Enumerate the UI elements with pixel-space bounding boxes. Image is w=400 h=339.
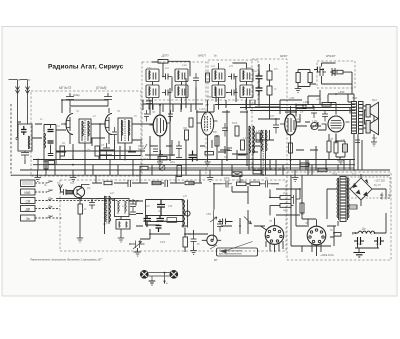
svg-text:6Ц 4П: 6Ц 4П — [374, 184, 381, 187]
note box: повернуто вид — [217, 248, 258, 256]
wire: AF top row — [60, 183, 202, 192]
resistor R15 — [267, 86, 272, 95]
phono jack — [202, 235, 221, 245]
coil L23 with pickup — [183, 200, 190, 228]
output transformer Тр2 — [352, 102, 364, 134]
resistor R33 — [183, 237, 188, 247]
filter choke Др — [358, 231, 375, 233]
band filter cell L8a — [175, 69, 188, 82]
resistor R35 — [152, 181, 161, 184]
detector parts: resistor R14 — [267, 71, 272, 80]
svg-text:Гр1: Гр1 — [372, 98, 377, 102]
resistor R23 screen — [327, 141, 331, 152]
electrolytic C44b — [144, 216, 152, 228]
ground: under V4 — [205, 158, 211, 166]
resistor R9 — [215, 136, 219, 146]
wire: power verticals — [291, 175, 337, 256]
phono input fork — [59, 185, 63, 193]
capacitor C31 — [355, 140, 360, 143]
svg-text:С45: С45 — [168, 205, 173, 208]
bridge rectifier — [350, 178, 372, 200]
wire: detector column — [255, 64, 280, 140]
svg-text:5100: 5100 — [232, 123, 238, 125]
capacitor C18 — [159, 150, 163, 155]
dashed box: power supply section — [287, 172, 391, 260]
svg-text:220к: 220к — [169, 162, 176, 164]
arrow terminal a — [163, 281, 165, 284]
svg-text:Зв: Зв — [26, 217, 30, 221]
resistor R24 — [333, 70, 343, 74]
svg-text:~220в 127в: ~220в 127в — [320, 253, 334, 257]
capacitor C12 — [193, 73, 199, 87]
wire: V5 surroundings — [280, 100, 302, 170]
pointer line from note — [220, 249, 227, 253]
converter cell L10a — [240, 69, 253, 82]
svg-text:ДПП: ДПП — [161, 54, 169, 58]
ground: varcap — [134, 252, 141, 256]
capacitor C17 — [153, 149, 158, 152]
capacitor C47 — [165, 180, 168, 187]
wire: transformer to speakers — [363, 106, 374, 128]
svg-text:Тр2: Тр2 — [352, 96, 357, 100]
converter cell L10b — [240, 85, 253, 98]
capacitor C25 — [256, 84, 263, 96]
dashed box: FM/input unit — [31, 91, 141, 176]
svg-text:6И1П: 6И1П — [198, 54, 206, 58]
resistor R22 cathode — [334, 142, 338, 153]
capacitor C10 mid — [162, 74, 172, 80]
resistor R34 — [104, 181, 112, 184]
loudspeaker Гр1 — [366, 102, 379, 118]
ground: C51 — [190, 251, 197, 255]
resistor R19 — [296, 105, 306, 109]
band switch button П5 — [21, 215, 36, 221]
wire: extra mid horizontals — [100, 150, 318, 155]
dashed box: band filter ДПФ — [142, 62, 206, 100]
power transformer Тр1 — [337, 177, 349, 222]
wire: af risers — [96, 170, 240, 183]
diagonal pointer — [210, 242, 253, 251]
wire: preamp links — [270, 189, 300, 215]
resistor R45 — [280, 204, 291, 208]
svg-text:1,0М: 1,0М — [256, 131, 261, 133]
capacitor C44 — [130, 199, 136, 212]
wire: transistor bias — [56, 199, 114, 239]
resistor R36 — [185, 181, 194, 184]
transistor Q1 П13 — [72, 185, 90, 200]
dial lamp Л9 — [170, 270, 178, 278]
band filter cell L8b — [175, 85, 188, 98]
resistor R2 — [95, 146, 100, 156]
resistor R50 — [334, 233, 341, 237]
svg-text:207: 207 — [145, 206, 151, 208]
resistor R30 — [66, 191, 73, 194]
svg-text:Гр2: Гр2 — [372, 136, 377, 140]
capacitor C21 — [176, 141, 182, 155]
resistor R21 — [322, 103, 331, 107]
wire: top box2 pins — [219, 63, 251, 110]
arrow to socket — [244, 217, 252, 225]
svg-text:1,0М: 1,0М — [312, 121, 317, 123]
vertical resistor R13 — [177, 166, 182, 177]
capacitor C51 — [191, 234, 197, 247]
wire: filter caps to ground — [355, 245, 379, 252]
svg-text:6Х2П: 6Х2П — [295, 119, 301, 121]
svg-text:+10в: +10в — [303, 100, 310, 104]
tube V5 6Х2П detector — [280, 106, 300, 160]
wire: risers mid — [150, 78, 247, 165]
page sheet — [2, 27, 397, 297]
resistor R1 — [60, 146, 65, 156]
IF transformer box L21 — [115, 199, 130, 217]
wire: screen — [328, 134, 330, 160]
IF transformer box L22 — [116, 220, 130, 230]
wire: tone row — [214, 184, 279, 210]
capacitor C40 — [60, 189, 63, 192]
svg-text:15н5: 15н5 — [143, 159, 149, 161]
svg-text:Переключатель диапазонов. Вклю: Переключатель диапазонов. Включена 1 про… — [30, 257, 103, 261]
resistor on bus R61 — [300, 163, 309, 166]
converter cell L9a — [212, 69, 225, 82]
svg-text:205: 205 — [157, 211, 163, 213]
band switch button П1 — [21, 180, 36, 187]
band switch button П4 — [21, 206, 36, 212]
band filter cell L7a — [146, 69, 159, 82]
trimmer C19 — [159, 165, 165, 171]
ground: bus left 2 — [70, 170, 77, 182]
svg-text:206: 206 — [145, 221, 151, 223]
wire: bus 5 partial — [148, 167, 354, 169]
electrolytic C32 — [343, 144, 348, 152]
electrolytic C61 — [374, 237, 384, 245]
capacitor C11 mid — [162, 90, 172, 96]
svg-text:210: 210 — [282, 193, 288, 195]
crossed pickup box on bus — [232, 172, 242, 177]
svg-text:ДВ: ДВ — [25, 207, 31, 211]
svg-text:+250: +250 — [338, 90, 345, 94]
svg-text:УКВ: УКВ — [24, 191, 31, 195]
band switch button П2 — [21, 189, 36, 195]
wire: mains — [346, 174, 386, 206]
trimmer pot R20 — [311, 122, 318, 129]
IF transformer L5 L6 — [118, 118, 132, 143]
capacitor C14b mid — [228, 90, 238, 96]
wire: bottom AF — [150, 228, 208, 253]
svg-text:П13: П13 — [70, 183, 75, 185]
ground: R25 — [295, 89, 302, 93]
wire: power section links — [291, 175, 338, 246]
resistor R6 — [206, 73, 210, 82]
svg-text:+250: +250 — [289, 98, 295, 100]
dashed box: detector section — [252, 59, 287, 169]
capacitor C34 — [330, 68, 338, 76]
tube V6 6П14П output — [322, 103, 350, 144]
capacitor C22 — [227, 148, 232, 151]
antenna W2 — [20, 80, 30, 125]
svg-text:СВ: СВ — [26, 199, 31, 203]
mains plug — [380, 193, 390, 200]
electrolytic C44a — [157, 200, 165, 216]
capacitor C57 — [217, 219, 223, 232]
input coil L2 — [44, 125, 56, 165]
wire: V5 to V6 — [296, 114, 326, 130]
resistor R16 — [256, 133, 260, 142]
resistor R7 — [189, 118, 193, 127]
svg-text:С5н15: С5н15 — [133, 252, 140, 254]
resistor R63 — [205, 152, 214, 155]
resistor R44 — [280, 196, 291, 200]
converter cell L9b — [212, 85, 225, 98]
capacitor C1 — [21, 151, 29, 160]
tiny value labels — [17, 65, 385, 254]
wire: V6 plate to transformer — [328, 94, 354, 170]
wire: AF link row — [95, 199, 188, 239]
wire: top box1 pins — [149, 60, 196, 110]
wire: V6 cathode — [336, 134, 345, 161]
trimmer C9 — [138, 141, 147, 155]
rectifier tube socket V8 — [307, 219, 326, 253]
wire: main bus 1 — [33, 159, 355, 161]
capacitor C3 grid — [66, 93, 74, 107]
electrolytic C60 — [354, 237, 364, 245]
capacitor C16 — [168, 110, 173, 122]
electrolytic C44c — [157, 216, 165, 222]
svg-text:Др: Др — [361, 227, 366, 231]
wire: input top links — [17, 106, 153, 152]
resistor R3 — [44, 161, 48, 169]
resistor R27 under V5 — [289, 143, 293, 153]
wire: right feed risers — [306, 90, 362, 170]
svg-text:0,5М: 0,5М — [206, 214, 211, 216]
tube V2 (УКВ heptode) — [100, 108, 112, 144]
dashed box: converter filters — [208, 60, 258, 100]
capacitor C23 dark — [189, 151, 197, 162]
tone box parts: capacitor C33 — [318, 68, 326, 76]
svg-text:6К3П: 6К3П — [280, 54, 288, 58]
tone row resistor R41 — [250, 182, 260, 186]
capacitor C58 — [291, 195, 300, 205]
wire: under V3 — [145, 140, 175, 156]
ground: V6 cathode — [337, 160, 344, 164]
svg-text:1000: 1000 — [224, 178, 230, 180]
detector mesh wires — [146, 200, 184, 228]
resistor R51 power — [300, 203, 304, 213]
svg-text:6П14П: 6П14П — [326, 54, 336, 58]
capacitor C6 — [104, 93, 112, 107]
resistor R25 — [296, 73, 300, 83]
dashed leaders from switch — [35, 183, 140, 218]
svg-text:15н5: 15н5 — [160, 242, 166, 244]
capacitor C7 — [103, 143, 110, 157]
wire: agc row — [196, 100, 255, 112]
tone row capacitor C56 — [262, 181, 271, 188]
tone row capacitor C55 — [222, 181, 232, 188]
wire: lamps — [148, 273, 170, 284]
dashed box: AF amplifier section — [60, 180, 286, 251]
electrolytic C44d — [156, 226, 162, 233]
wire: v risers left — [46, 100, 125, 170]
wire: main bus 4 — [11, 174, 390, 176]
capacitor C8 — [112, 127, 117, 141]
wire: varcap — [129, 239, 150, 252]
IF transformer L11 (between V4 and V5) — [261, 130, 267, 175]
wire: choke — [352, 213, 386, 233]
switch contact arrows — [47, 181, 52, 218]
ground: under V3 — [157, 158, 163, 166]
svg-text:СЗ0: СЗ0 — [207, 97, 212, 99]
wire: left section extra links — [25, 124, 145, 170]
resistor R12 — [158, 157, 167, 160]
wire: R25 R26 net — [298, 70, 316, 89]
resistor R18 (+108 feed) — [303, 105, 313, 109]
ground: bus left 1 — [35, 170, 42, 182]
label box ЦЗ — [167, 218, 177, 223]
ferrite antenna L1 — [16, 124, 32, 151]
band switch button П3 — [21, 198, 36, 204]
capacitor C28 — [311, 106, 317, 118]
svg-text:МГ 6х73: МГ 6х73 — [59, 86, 71, 90]
resistor R10 — [235, 126, 239, 136]
wire: tone box link — [322, 63, 353, 94]
wire: mid column risers — [143, 81, 246, 112]
volume pot R42 — [210, 210, 217, 240]
IF transformer L3 L4 — [79, 119, 91, 143]
resistor on bus R60 — [253, 171, 262, 174]
svg-text:АПЧ: АПЧ — [162, 220, 168, 223]
dashed box: tone network — [317, 61, 355, 88]
dashed extender x206 — [205, 100, 207, 175]
wire: bus riser stubs — [46, 160, 350, 176]
variable capacitor C50 — [131, 241, 145, 250]
wire: main bus 3 — [20, 169, 390, 171]
resistor R31 — [78, 204, 83, 214]
dial lamp Л8 — [140, 270, 148, 278]
ground: power filter — [354, 253, 366, 258]
capacitor C46 — [128, 180, 131, 187]
svg-text:~127 220: ~127 220 — [374, 179, 385, 183]
tone row resistor R40 — [237, 182, 247, 186]
capacitor C29 — [314, 67, 324, 73]
svg-text:+108: +108 — [316, 99, 322, 101]
svg-text:Г-204: Г-204 — [199, 108, 206, 111]
capacitor C59 — [218, 219, 233, 225]
dashed line: left margin — [10, 104, 12, 176]
ground: bus right — [292, 170, 299, 182]
svg-text:С47: С47 — [270, 115, 275, 118]
ground: under C21 — [176, 155, 182, 160]
resistor R5 top — [158, 60, 168, 64]
capacitor C30 — [322, 110, 328, 122]
capacitor C26 — [273, 119, 279, 134]
capacitor C41 — [89, 203, 95, 210]
ground: L21 — [118, 229, 125, 242]
capacitor C24 — [256, 71, 263, 84]
wire: main bus 2 — [33, 164, 355, 166]
IF coil L11b — [249, 126, 254, 170]
svg-text:(П 6х8): (П 6х8) — [96, 86, 106, 90]
svg-text:20,0: 20,0 — [375, 244, 381, 246]
wire: top feed row — [215, 105, 355, 111]
resistor R64 — [140, 166, 148, 169]
ground: transistor — [77, 238, 84, 242]
resistor R26 — [308, 73, 312, 83]
capacitor C20 — [222, 123, 228, 137]
tube V4 6К4П IF amp — [197, 100, 218, 160]
ground: speaker — [371, 134, 377, 146]
svg-text:ВГ: ВГ — [214, 258, 218, 262]
resistor on bus R62 — [318, 168, 327, 171]
fuse Пр — [349, 205, 357, 209]
svg-text:вид переключателя: вид переключателя — [219, 253, 242, 256]
svg-text:Тр1: Тр1 — [332, 172, 337, 176]
detector transformer L20 — [105, 196, 111, 224]
wire: right-mid verticals — [270, 146, 344, 175]
ground: bus mid — [207, 170, 214, 182]
wire: under V4 — [200, 140, 260, 154]
svg-text:Радиолы Агат, Сириус: Радиолы Агат, Сириус — [48, 64, 124, 71]
svg-text:6800: 6800 — [246, 68, 252, 70]
capacitor C45 — [130, 212, 136, 215]
band filter cell L7b — [146, 85, 159, 98]
wire: socket row — [221, 210, 265, 234]
dashed box: mains input — [347, 177, 390, 198]
capacitor C13 — [146, 98, 152, 108]
antenna W1 — [9, 80, 20, 138]
svg-text:1,0М: 1,0М — [243, 138, 248, 140]
svg-text:2,2м: 2,2м — [181, 65, 187, 67]
tube V3 6И1П converter — [150, 105, 171, 160]
tube V1 (УКВ triode) — [61, 107, 73, 144]
resistor R11 — [241, 140, 245, 150]
resistor R8 — [185, 130, 189, 140]
ground: lamps — [149, 281, 156, 285]
svg-text:20,0: 20,0 — [357, 244, 363, 246]
svg-text:1м: 1м — [254, 71, 257, 73]
dashed extender x142 — [141, 100, 143, 175]
tube socket V7 (6Н2П base) — [261, 218, 284, 253]
capacitor C14 mid — [228, 74, 238, 80]
capacitor C15 — [144, 110, 149, 122]
svg-text:1Мкр: 1Мкр — [73, 93, 80, 97]
loudspeaker Гр2 — [366, 118, 379, 134]
